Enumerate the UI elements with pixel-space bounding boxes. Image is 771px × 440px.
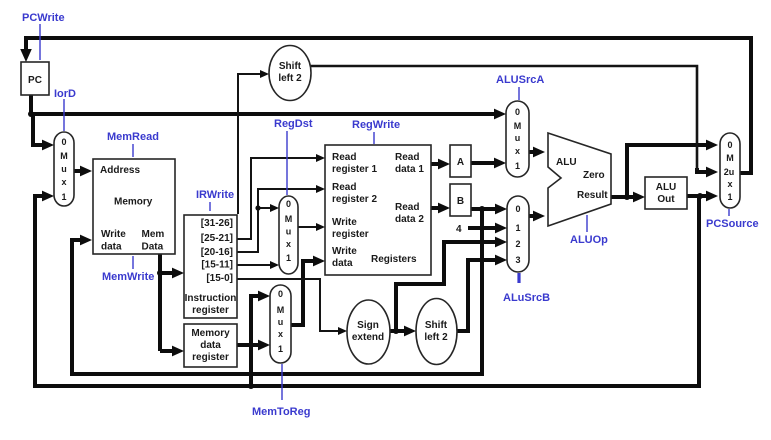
wire PC write-back loop (PCSource mux output right, up across top, down into PC) [26, 38, 751, 173]
wire IR[15-0] to sign extend [237, 279, 341, 331]
arrowhead into PC (down) [20, 49, 32, 62]
arrowhead IorD mux input 0 [42, 140, 54, 151]
svg-text:extend: extend [352, 332, 384, 343]
svg-text:Zero: Zero [583, 170, 605, 181]
arrowhead Write register input [316, 223, 325, 231]
svg-text:1: 1 [61, 192, 66, 202]
wire MemToReg mux output up to registers Write data [291, 261, 318, 325]
svg-text:1: 1 [278, 344, 283, 354]
svg-text:0: 0 [515, 107, 520, 117]
arrowhead ALUSrcA mux input 1 [494, 158, 506, 169]
arrowhead ALU lower input [533, 211, 545, 222]
wire shift left 2 output to ALUSrcB mux input 3 [457, 260, 500, 331]
mux RegDst [279, 196, 298, 274]
svg-text:data: data [200, 340, 221, 351]
control line ALUSrcB (short thick mark) [517, 273, 520, 283]
arrowhead ALUSrcB mux input 0 [495, 204, 507, 215]
arrowhead ALU upper input [533, 147, 545, 158]
arrowhead Read register 1 input [316, 154, 325, 162]
wire ALU result to ALU Out register [611, 195, 638, 199]
svg-text:IorD: IorD [54, 88, 76, 100]
svg-text:[15-11]: [15-11] [201, 260, 233, 271]
svg-text:register 2: register 2 [332, 194, 377, 205]
wire IorD mux output to memory Address [74, 169, 86, 173]
control line IRWrite [209, 202, 211, 211]
wire shift left 2 output across top to PCSource [311, 66, 697, 170]
control line PCSource [728, 209, 730, 216]
arrowhead sign extend input [338, 327, 347, 335]
svg-text:IRWrite: IRWrite [196, 189, 234, 201]
node ALUOut bottom bus junction [248, 383, 254, 389]
svg-text:Write: Write [332, 217, 357, 228]
mux PCSource [720, 133, 740, 208]
svg-text:PCWrite: PCWrite [22, 12, 65, 24]
svg-text:data 2: data 2 [395, 214, 424, 225]
register ALU Out [645, 177, 687, 209]
svg-text:Out: Out [657, 194, 675, 205]
svg-text:Instruction: Instruction [185, 293, 237, 304]
arrowhead register A input [438, 159, 450, 170]
arrowhead PCSource mux input 0 [706, 140, 718, 151]
svg-text:0: 0 [727, 140, 732, 150]
arrowhead RegDst mux input 0 [270, 204, 279, 212]
svg-text:4: 4 [456, 224, 462, 235]
op-amp style ALU body [548, 133, 611, 226]
node sign extend output junction [393, 328, 399, 334]
svg-text:ALU: ALU [556, 157, 577, 168]
svg-text:x: x [61, 177, 66, 187]
svg-text:M: M [514, 121, 522, 131]
arrowhead registers Write data [313, 256, 325, 267]
mux ALUSrcA [506, 101, 529, 177]
svg-text:MemWrite: MemWrite [102, 271, 154, 283]
svg-text:0: 0 [515, 204, 520, 214]
node ALU result junction [624, 194, 630, 200]
svg-text:Data: Data [142, 242, 164, 253]
node B register bus junction [479, 206, 485, 212]
wire B register to ALUSrcB mux input 0 [471, 207, 500, 211]
svg-text:ALU: ALU [656, 182, 677, 193]
svg-text:u: u [286, 227, 292, 237]
svg-text:Registers: Registers [371, 254, 417, 265]
svg-text:Write: Write [332, 246, 357, 257]
arrowhead register B input [438, 203, 450, 214]
svg-text:x: x [727, 179, 732, 189]
wire IR[25-21] to Read register 1 [237, 158, 319, 239]
svg-text:0: 0 [61, 137, 66, 147]
svg-text:M: M [726, 153, 734, 163]
svg-text:Write: Write [101, 229, 126, 240]
register file [325, 145, 431, 275]
svg-text:Shift: Shift [425, 320, 448, 331]
shift left 2 (jump, top) [269, 46, 311, 101]
svg-text:left 2: left 2 [278, 73, 302, 84]
wire ALUOut bus: down right side, along bottom, up to IorD mux input 1 [35, 196, 699, 386]
svg-text:register: register [192, 352, 229, 363]
svg-text:Memory: Memory [114, 197, 153, 208]
svg-text:Shift: Shift [279, 61, 302, 72]
arrowhead RegDst mux input 1 [270, 261, 279, 269]
arrowhead shift left 2 bottom input [404, 326, 416, 337]
svg-text:1: 1 [727, 192, 732, 202]
control line ALUOp [586, 215, 588, 232]
wire ALU Out output to PCSource mux input 1 [687, 194, 711, 198]
wire ALUSrcA mux output to ALU [529, 150, 539, 154]
register PC [21, 62, 49, 95]
wire sign extend output to shift left 2 [389, 329, 409, 333]
wire jump field up to shift left 2 [238, 74, 263, 214]
svg-text:RegWrite: RegWrite [352, 119, 400, 131]
arrowhead ALUSrcA mux input 0 [494, 109, 506, 120]
control line RegWrite [373, 132, 375, 144]
svg-text:left 2: left 2 [424, 332, 448, 343]
svg-text:register 1: register 1 [332, 164, 377, 175]
control line MemRead [132, 144, 134, 157]
memory unit [93, 159, 175, 254]
mux ALUSrcB [507, 196, 529, 272]
shift left 2 (branch, bottom) [416, 299, 457, 365]
svg-text:Sign: Sign [357, 320, 379, 331]
arrowhead memory Address [80, 166, 92, 177]
wire IR[15-11] to RegDst mux input 1 [237, 264, 273, 266]
svg-text:3: 3 [515, 255, 520, 265]
wire IR[20-16] branch to RegDst mux input 0 [258, 207, 273, 209]
wire MDR output to MemToReg mux input 1 [237, 343, 263, 347]
svg-text:register: register [192, 305, 229, 316]
svg-text:M: M [277, 305, 285, 315]
svg-text:1: 1 [515, 161, 520, 171]
register A [450, 145, 471, 177]
svg-text:MemToReg: MemToReg [252, 406, 310, 418]
svg-text:u: u [278, 317, 284, 327]
svg-text:MemRead: MemRead [107, 131, 159, 143]
arrowhead MemToReg mux input 0 [258, 291, 270, 302]
svg-text:B: B [457, 196, 464, 207]
svg-text:[20-16]: [20-16] [201, 247, 233, 258]
node PC bus junction [28, 111, 34, 117]
arrowhead ALUSrcB mux input 3 [495, 255, 507, 266]
sign extend unit [347, 300, 390, 364]
svg-text:[31-26]: [31-26] [201, 218, 233, 229]
wire A register to ALUSrcA mux input 1 [471, 161, 499, 165]
svg-text:data 1: data 1 [395, 164, 424, 175]
svg-text:Read: Read [332, 182, 356, 193]
svg-text:data: data [332, 258, 353, 269]
svg-text:[15-0]: [15-0] [206, 273, 233, 284]
svg-text:u: u [61, 164, 67, 174]
control line MemToReg [281, 364, 283, 400]
wire RegDst mux output to Write register [298, 226, 319, 228]
svg-text:0: 0 [286, 199, 291, 209]
arrowhead PCSource mux input 1 [706, 191, 718, 202]
svg-text:Read: Read [395, 152, 419, 163]
arrowhead ALUSrcB mux input 1 [495, 223, 507, 234]
instruction register [184, 215, 237, 318]
arrowhead ALUSrcB mux input 2 [495, 237, 507, 248]
arrowhead Read register 2 input [316, 185, 325, 193]
svg-text:M: M [60, 151, 68, 161]
mux IorD [54, 132, 74, 206]
node Mem Data to IR junction [157, 270, 163, 276]
svg-text:Read: Read [332, 152, 356, 163]
svg-text:Read: Read [395, 202, 419, 213]
svg-text:ALUSrcA: ALUSrcA [496, 74, 544, 86]
control line IorD [63, 99, 65, 131]
svg-text:x: x [278, 329, 283, 339]
wire Read data 1 to A register [431, 162, 443, 166]
arrowhead shift left 2 top input [260, 70, 269, 78]
svg-text:Address: Address [100, 165, 140, 176]
wire IR[20-16] to Read register 2 [237, 189, 319, 252]
node ALU Out output junction [697, 193, 703, 199]
control line PCWrite [39, 24, 41, 60]
svg-text:M: M [285, 214, 293, 224]
wire ALU result branch up to PCSource mux input 0 [627, 145, 711, 197]
wire PC output down to junction and long bus to ALUSrcA input 0 [29, 95, 500, 114]
svg-text:Memory: Memory [191, 328, 230, 339]
arrowhead PCSource mux input 2 [706, 167, 718, 178]
svg-text:1: 1 [286, 253, 291, 263]
svg-text:register: register [332, 229, 369, 240]
mux MemToReg [270, 285, 291, 363]
svg-text:0: 0 [278, 289, 283, 299]
node IR[20-16] junction [255, 205, 260, 210]
svg-text:ALUOp: ALUOp [570, 234, 608, 246]
register B [450, 184, 471, 216]
svg-text:1: 1 [515, 223, 520, 233]
arrowhead memory data register input [172, 346, 184, 357]
arrowhead memory Write data [80, 235, 92, 246]
svg-text:Mem: Mem [142, 229, 165, 240]
svg-text:data: data [101, 242, 122, 253]
svg-text:2: 2 [515, 239, 520, 249]
wire Mem Data output down with branches to IR and MDR [160, 253, 177, 351]
svg-text:PC: PC [28, 75, 42, 86]
svg-text:PCSource: PCSource [706, 218, 759, 230]
wire Read data 2 to B register [431, 206, 443, 210]
svg-text:RegDst: RegDst [274, 118, 313, 130]
arrowhead MemToReg mux input 1 [258, 340, 270, 351]
svg-text:A: A [457, 157, 464, 168]
wire branch PC to IorD mux input 0 [33, 114, 48, 145]
control line RegDst [286, 131, 288, 195]
arrowhead ALU Out input [633, 192, 645, 203]
svg-text:2u: 2u [724, 167, 735, 177]
wire jump address into PCSource mux input 2 [697, 168, 711, 172]
control line ALUSrcA [518, 87, 520, 100]
wire ALUSrcB mux output to ALU [529, 214, 539, 218]
memory data register [184, 324, 237, 367]
svg-text:ALuSrcB: ALuSrcB [503, 292, 550, 304]
wire sign extend branch up to ALUSrcB mux input 2 [396, 242, 500, 331]
control line MemWrite [132, 256, 134, 269]
svg-text:Result: Result [577, 190, 608, 201]
svg-text:[25-21]: [25-21] [201, 233, 233, 244]
wire B register bus: down, along bottom, up to memory Write data [72, 209, 482, 374]
arrowhead IorD mux input 1 [42, 191, 54, 202]
svg-text:u: u [515, 133, 521, 143]
wire ALUOut bus branch up to MemToReg mux input 0 [251, 296, 263, 386]
arrowhead instruction register input [172, 268, 184, 279]
svg-text:x: x [515, 146, 520, 156]
svg-text:x: x [286, 239, 291, 249]
wire constant 4 to ALUSrcB mux input 1 [468, 226, 500, 230]
